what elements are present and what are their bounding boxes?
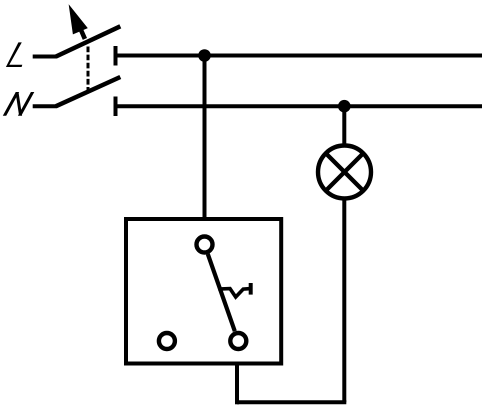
wire bottom horizontal	[237, 400, 346, 404]
terminal circle bottom-right	[230, 333, 246, 349]
label L	[6, 42, 22, 67]
lever actuator symbol end bar	[249, 283, 253, 295]
terminal circle bottom-left	[159, 333, 175, 349]
lamp E1 cross stroke 2	[325, 152, 365, 192]
label N	[3, 92, 35, 116]
switch lever	[208, 254, 235, 331]
lever actuator symbol zigzag	[218, 289, 250, 297]
wire L bus	[116, 54, 482, 58]
terminal bar L	[114, 46, 118, 66]
wire N bus	[116, 104, 482, 108]
switch gang link dashed	[87, 47, 90, 92]
actuation arrow tail	[80, 28, 85, 39]
terminal bar N	[114, 97, 118, 117]
node junction on N	[338, 100, 351, 113]
wire N stub	[33, 104, 57, 108]
terminal circle top	[197, 237, 213, 253]
wire L stub	[33, 55, 57, 59]
wire box bottom down	[235, 364, 239, 405]
node junction on L	[198, 49, 211, 62]
wire lamp bottom down	[342, 199, 346, 403]
switch unit box	[126, 219, 281, 364]
actuation arrow head	[69, 6, 87, 34]
lamp E1 cross stroke 1	[325, 152, 365, 192]
switch blade L	[56, 26, 120, 56]
lamp E1 circle	[318, 146, 371, 199]
wire from N node down to lamp	[342, 106, 346, 146]
wire from L node down to switch box	[203, 56, 207, 220]
switch blade N	[56, 77, 120, 106]
